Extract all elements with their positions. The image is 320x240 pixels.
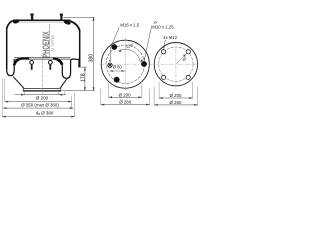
bellows left shoulder: [7, 21, 14, 29]
extension plate edges: [25, 91, 59, 95]
svg-text:Air Springs: Air Springs: [51, 35, 55, 52]
svg-text:Ø 200: Ø 200: [170, 93, 183, 98]
centerline piston: [42, 56, 44, 95]
dim line d380: [2, 116, 75, 118]
bead roll left: [12, 19, 20, 25]
top view 1 outer circle d286: [101, 40, 149, 88]
svg-text:178: 178: [81, 73, 87, 82]
leader M10: [144, 25, 152, 60]
top view 2 outer circle d260: [154, 42, 197, 85]
dim line d200 side: [15, 94, 67, 96]
dim line d360: [3, 107, 73, 109]
svg-text:Ø 200: Ø 200: [119, 93, 132, 98]
leader M16: [110, 27, 119, 62]
piston left wall: [13, 77, 24, 89]
piston bolt left: [30, 61, 34, 65]
hole M12 NW: [161, 50, 165, 54]
svg-text:Ø 60: Ø 60: [113, 64, 123, 69]
dim line 178: [84, 67, 86, 91]
hole M12 SE: [186, 75, 190, 79]
rolling lobe right: [62, 59, 79, 78]
stud dot bottom-left: [114, 77, 120, 83]
extension lines bottom left: [2, 79, 4, 117]
svg-text:380: 380: [89, 54, 95, 63]
lobe thick left: [14, 58, 29, 65]
dim line 380: [93, 17, 95, 90]
rolling lobe left: [7, 59, 15, 75]
stud dot top-left: [111, 44, 117, 50]
svg-text:4x M12: 4x M12: [163, 35, 177, 40]
stud left M10: [30, 13, 33, 20]
svg-text:M10 x 1.25: M10 x 1.25: [152, 24, 174, 29]
stud dot right: [141, 61, 147, 67]
svg-text:Ø 200: Ø 200: [36, 96, 49, 101]
45 deg arrow: [177, 55, 186, 64]
side view: top bead plate: [13, 20, 70, 22]
air fitting M16: [108, 63, 112, 67]
dim 380 extension top: [64, 16, 95, 18]
bellows right wall: [79, 30, 81, 68]
logo rule: [49, 24, 51, 58]
svg-text:Ø 350 (max Ø 360): Ø 350 (max Ø 360): [21, 102, 59, 107]
piston bolt right: [48, 61, 52, 65]
top view 1 inner circle: [106, 45, 144, 83]
svg-text:Ø 260: Ø 260: [170, 100, 183, 105]
top view 1 centerlines: [100, 37, 153, 91]
piston right wall: [60, 79, 67, 89]
circle2 dim d260: [154, 104, 198, 106]
dim 178 extension top: [79, 66, 87, 68]
bellows right shoulder: [70, 21, 80, 31]
piston top lines: [14, 58, 70, 59]
dim line d350: [5, 101, 72, 103]
circle2 dim d200: [159, 97, 193, 99]
circle1 dim d200: [109, 96, 142, 98]
circle1 extension lines: [101, 84, 150, 106]
stud right M10: [60, 14, 63, 21]
extension lines bottom right: [64, 92, 74, 117]
bellows left wall: [6, 28, 8, 70]
top view 2 centerlines: [153, 41, 200, 89]
hole M12 SW: [162, 75, 166, 79]
lobe thick right: [53, 58, 62, 64]
circle1 dim d286: [101, 104, 150, 106]
dim d60: [110, 70, 125, 72]
bead roll right: [63, 19, 71, 25]
leader 4x M12: [164, 40, 166, 49]
top view 2 bolt circle dashed: [159, 47, 193, 81]
svg-text:Ø 286: Ø 286: [119, 100, 132, 105]
hole M12 NE: [186, 50, 190, 54]
circle2 extension lines: [154, 82, 198, 105]
PHOENIX watermark: [40, 31, 54, 58]
dim 380 extension bottom: [62, 90, 95, 92]
angle arc 120: [119, 49, 141, 62]
piston bottom plate: [24, 88, 60, 90]
svg-text:M16 x 1.5: M16 x 1.5: [120, 23, 139, 28]
